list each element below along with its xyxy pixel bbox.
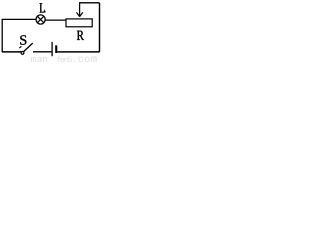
switch blade [24, 43, 33, 52]
wire lamp to resistor [46, 19, 67, 21]
wire bottom-left to pivot [2, 51, 21, 53]
stray tick below S [19, 46, 21, 48]
stray dot after L [44, 11, 45, 12]
watermark manfen5.com [31, 56, 97, 62]
wire bottom-right horizontal [57, 51, 99, 53]
wire left vertical [1, 19, 3, 52]
label R [77, 31, 84, 40]
slider arrowhead [76, 12, 82, 16]
wire top-left horizontal [2, 18, 37, 20]
label S [20, 35, 26, 44]
battery long thin plate [51, 42, 53, 56]
slider stem wire [79, 3, 81, 17]
wire top-right horizontal [79, 2, 100, 4]
switch pivot circle [21, 52, 24, 55]
lamp L (circle with X) [36, 15, 45, 24]
label L [40, 3, 45, 12]
wire right vertical [99, 3, 101, 52]
wire battery to switch [33, 51, 52, 53]
battery short thick plate [55, 45, 57, 53]
resistor R body [66, 19, 92, 27]
